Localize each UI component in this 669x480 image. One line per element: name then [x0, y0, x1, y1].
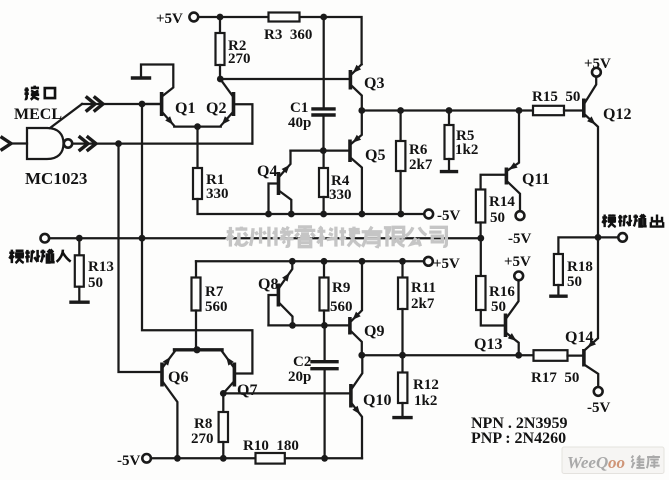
- wire vertical from NAND output node down to Q6 base: [119, 144, 161, 372]
- svg-text:WeeQ: WeeQ: [567, 453, 608, 472]
- transistor Q10: [351, 355, 362, 458]
- resistor R16: [476, 238, 504, 325]
- svg-text:50: 50: [491, 299, 506, 315]
- transistor Q2: [198, 80, 234, 127]
- svg-text:R10 180: R10 180: [243, 438, 299, 454]
- resistor R2: [216, 17, 225, 79]
- terminal +5V above Q12: [592, 68, 601, 77]
- svg-text:Q12: Q12: [603, 106, 631, 123]
- node Q6-Q7 emitters / R7 bottom: [193, 346, 200, 353]
- wire Q9 base: [324, 324, 348, 326]
- svg-text:R13: R13: [88, 259, 114, 275]
- wire lower mid rail: [362, 354, 534, 356]
- node R11 bottom / R12 top: [399, 352, 406, 359]
- node R4 bottom: [320, 211, 327, 218]
- node R13 top: [76, 235, 83, 242]
- chevrons on upper MECL line: [87, 98, 103, 111]
- svg-text:+5V: +5V: [156, 11, 183, 27]
- svg-text:Q9: Q9: [364, 323, 384, 340]
- terminal -5V upper: [424, 210, 433, 219]
- svg-text:-5V: -5V: [508, 231, 531, 247]
- svg-text:330: 330: [329, 187, 352, 203]
- svg-text:Q13: Q13: [474, 336, 502, 353]
- node Q11 emitter tap: [516, 107, 523, 114]
- wire analog input line: [49, 237, 481, 239]
- node Q1 base junction: [139, 101, 146, 108]
- watermark 杭州将睿科技有限公司: [226, 227, 446, 247]
- gate input chevron: [2, 138, 11, 150]
- node Q7 collector / R8 top: [220, 390, 227, 397]
- svg-text:50: 50: [88, 275, 103, 291]
- node R8 bottom: [220, 455, 227, 462]
- transistor Q11 (PNP): [481, 111, 520, 212]
- transistor Q4 (diode connected): [269, 151, 292, 214]
- wire +5V rail: [198, 17, 361, 64]
- transistor Q12 (NPN): [584, 77, 598, 238]
- wire Q5 base line: [291, 149, 349, 151]
- svg-text:MECL: MECL: [14, 106, 62, 123]
- resistor R11: [398, 261, 407, 355]
- svg-text:R16: R16: [489, 284, 515, 300]
- svg-text:-5V: -5V: [437, 208, 460, 224]
- node Q13 emitter: [515, 352, 522, 359]
- ground R5 bottom: [442, 170, 457, 173]
- svg-text:50: 50: [490, 210, 505, 226]
- resistor R5: [445, 111, 454, 172]
- svg-text:oo: oo: [608, 453, 625, 472]
- terminal +5V above Q13: [514, 272, 523, 281]
- ground R12 bottom: [394, 416, 411, 419]
- svg-text:R9: R9: [332, 280, 350, 296]
- node R6 bottom: [398, 211, 405, 218]
- wire +5V mid line: [196, 260, 424, 262]
- svg-text:MC1023: MC1023: [25, 169, 87, 188]
- capacitor C2 20p: [312, 325, 337, 458]
- resistor R6: [396, 111, 405, 215]
- svg-text:R11: R11: [411, 280, 436, 296]
- resistor R7: [192, 261, 201, 350]
- node Q3 collector / Q5 emitter: [358, 107, 365, 114]
- node Q8 collector: [289, 322, 296, 329]
- resistor R18: [554, 254, 563, 296]
- svg-text:Q6: Q6: [168, 369, 188, 386]
- node R2 bottom / Q2 collector: [217, 76, 224, 83]
- terminal +5V top: [189, 13, 198, 22]
- terminal +5V mid: [424, 257, 433, 266]
- label 接口 (interface): [24, 86, 55, 100]
- node NAND output junction: [115, 140, 122, 147]
- node Q1-Q2 emitters: [194, 123, 201, 130]
- wire output to R18: [558, 237, 598, 254]
- svg-text:Q8: Q8: [258, 276, 278, 293]
- wire mid rail (collector bus): [362, 109, 533, 111]
- label 模拟输出 (analog output): [602, 214, 663, 227]
- node R3 right / C1 tap: [320, 14, 327, 21]
- wire Q10 base line: [223, 392, 349, 394]
- node Q6 collector: [174, 455, 181, 462]
- chevrons on NAND output line: [80, 137, 96, 150]
- transistor Q7: [222, 351, 235, 394]
- svg-text:Q7: Q7: [237, 382, 257, 399]
- wire -5V bottom rail: [151, 457, 362, 459]
- svg-text:R18: R18: [567, 259, 593, 275]
- svg-text:R15 50: R15 50: [532, 89, 580, 105]
- node C1 bottom: [320, 147, 327, 154]
- wire R15 to Q12 base: [564, 109, 582, 111]
- svg-text:50: 50: [567, 274, 582, 290]
- svg-text:270: 270: [191, 431, 214, 447]
- svg-text:R8: R8: [194, 416, 212, 432]
- svg-text:R17 50: R17 50: [531, 370, 579, 386]
- svg-text:2k7: 2k7: [411, 296, 435, 312]
- node Q9 collector / Q10 emitter: [358, 352, 365, 359]
- wire Q3 base line: [220, 78, 349, 80]
- wire Q1 base: [142, 103, 160, 105]
- resistor R17: [534, 350, 568, 361]
- wire R17 to Q14 base: [568, 354, 583, 356]
- svg-text:Q1: Q1: [175, 100, 195, 117]
- label 模拟输入 (analog input): [9, 249, 70, 263]
- resistor R1: [193, 127, 268, 214]
- node R11 top: [399, 258, 406, 265]
- transistor Q13: [506, 280, 519, 355]
- resistor R13: [75, 238, 84, 301]
- resistor R15: [533, 106, 564, 115]
- svg-text:R6: R6: [409, 142, 428, 158]
- svg-text:Q10: Q10: [363, 392, 391, 409]
- wire Q8 base-collector tie: [269, 324, 325, 326]
- svg-text:Q11: Q11: [522, 171, 550, 188]
- wire -5V line upper: [268, 213, 425, 215]
- svg-text:560: 560: [330, 299, 353, 315]
- svg-text:Q5: Q5: [365, 147, 385, 164]
- node Q9 emitter top: [359, 258, 366, 265]
- resistor R14: [476, 190, 485, 239]
- node Q8 emitter top: [289, 258, 296, 265]
- transistor Q9: [350, 261, 362, 355]
- transistor Q8 (diode connected): [269, 261, 293, 325]
- node Q4 base on -5V line: [265, 211, 272, 218]
- node C2 bottom: [321, 455, 328, 462]
- terminal -5V below Q11: [516, 211, 525, 220]
- svg-text:C2: C2: [293, 354, 311, 370]
- transistor Q3 (PNP): [350, 64, 361, 110]
- svg-text:+5V: +5V: [504, 254, 531, 270]
- node R6 top: [397, 107, 404, 114]
- terminal analog input: [41, 234, 50, 243]
- svg-text:330: 330: [206, 186, 229, 202]
- svg-text:C1: C1: [290, 100, 308, 116]
- svg-text:1k2: 1k2: [414, 393, 437, 409]
- wire output to terminal: [598, 236, 618, 238]
- svg-text:560: 560: [205, 299, 228, 315]
- transistor Q14 (PNP): [584, 237, 598, 386]
- terminal analog output: [618, 233, 627, 242]
- terminal -5V below Q14: [594, 387, 603, 396]
- wire vertical from Q1-base node to analog input line: [141, 104, 143, 238]
- svg-text:Q4: Q4: [257, 163, 277, 180]
- resistor R3: [269, 13, 300, 22]
- wire NAND output line: [72, 142, 252, 144]
- wire Q2 base loop (up and left): [235, 104, 252, 143]
- node R5 top: [446, 107, 453, 114]
- wire gate top to upper MECL line (diagonal): [50, 104, 82, 128]
- node Q5 collector bottom: [359, 211, 366, 218]
- svg-text:R3 360: R3 360: [264, 27, 312, 43]
- ground Q1 collector: [133, 76, 150, 79]
- node input to Q1/Q7 vertical: [139, 235, 146, 242]
- svg-text:1k2: 1k2: [455, 142, 478, 158]
- wire Q6-Q7 emitter bus (thick): [175, 348, 223, 351]
- terminal -5V bottom: [142, 454, 151, 463]
- svg-text:+5V: +5V: [433, 256, 460, 272]
- wire Q7 base loop from input node: [142, 238, 252, 373]
- svg-text:Q14: Q14: [565, 329, 593, 346]
- resistor R4: [319, 151, 328, 214]
- node analog output: [595, 234, 602, 241]
- svg-text:+5V: +5V: [584, 56, 611, 72]
- svg-text:PNP : 2N4260: PNP : 2N4260: [471, 430, 566, 447]
- node Q4 collector on -5V line: [288, 211, 295, 218]
- svg-text:R12: R12: [413, 377, 439, 393]
- svg-text:-5V: -5V: [117, 453, 140, 469]
- svg-text:R14: R14: [489, 194, 515, 210]
- resistor R12: [398, 355, 407, 417]
- wire upper MECL line: [82, 103, 160, 105]
- transistor Q6: [162, 351, 177, 459]
- node R9 top: [321, 258, 328, 265]
- watermark WeeQoo box: [562, 447, 664, 474]
- svg-text:R7: R7: [205, 284, 224, 300]
- resistor R8: [219, 393, 228, 458]
- ground R18 bottom: [551, 295, 566, 298]
- svg-text:270: 270: [228, 51, 251, 67]
- resistor R9: [320, 261, 329, 325]
- node R2 top: [217, 14, 224, 21]
- svg-text:2k7: 2k7: [409, 157, 433, 173]
- svg-text:Q3: Q3: [364, 75, 384, 92]
- svg-text:20p: 20p: [288, 369, 311, 385]
- wire gate input: [11, 142, 27, 144]
- transistor Q1: [141, 65, 198, 127]
- resistor R10: [256, 453, 285, 464]
- svg-text:Q2: Q2: [206, 100, 226, 117]
- node R9 bottom / Q9 base: [321, 322, 328, 329]
- svg-text:-5V: -5V: [587, 400, 610, 416]
- transistor Q5 (PNP): [350, 111, 362, 214]
- svg-text:40p: 40p: [288, 115, 311, 131]
- capacitor C1 40p: [313, 17, 334, 150]
- gate MC1023 NAND: [27, 128, 72, 159]
- ground R13 bottom: [71, 301, 88, 304]
- node R14/R16 tap: [477, 235, 484, 242]
